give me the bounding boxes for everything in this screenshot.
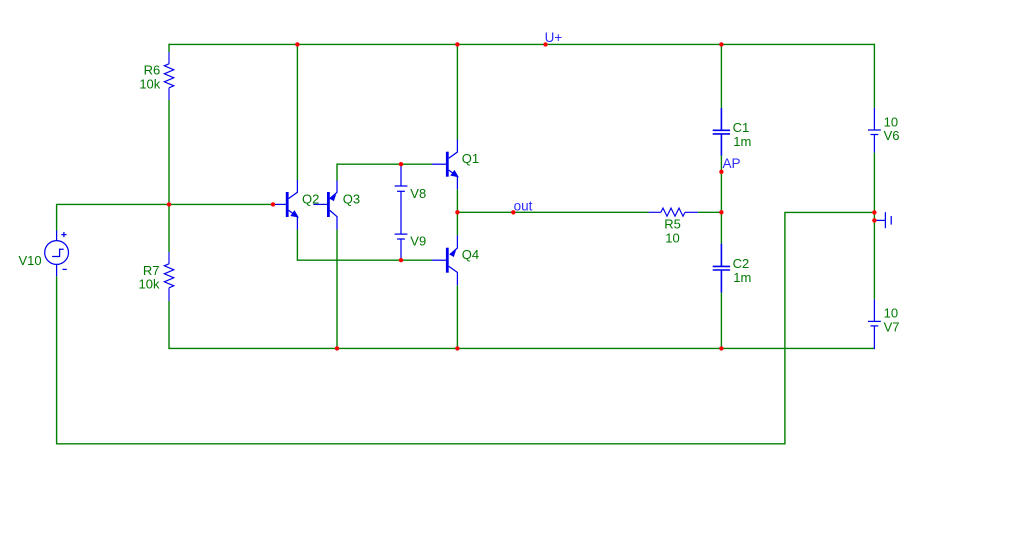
- transistor Q1: [432, 140, 458, 190]
- svg-text:V8: V8: [410, 186, 426, 201]
- battery V8: [395, 165, 408, 234]
- wire Q2 emitter down and right to Q4 base: [297, 230, 432, 261]
- svg-text:out: out: [514, 198, 533, 213]
- wire Q1 emitter to out node: [456, 189, 458, 212]
- svg-text:10: 10: [884, 306, 898, 321]
- wire top rail U+: [169, 43, 874, 45]
- svg-text:10: 10: [665, 231, 679, 246]
- svg-text:Q1: Q1: [462, 151, 479, 166]
- battery V6: [868, 108, 881, 153]
- wire Q3 collector to bottom rail: [336, 230, 338, 350]
- node right rail feedback: [872, 210, 876, 214]
- svg-text:C2: C2: [733, 256, 750, 271]
- wire right rail top: [873, 44, 875, 108]
- wire C1 to AP node: [720, 156, 722, 172]
- svg-text:V9: V9: [410, 234, 426, 249]
- wire left rail top (R6 to top rail): [168, 44, 170, 52]
- transistor Q3: [313, 181, 337, 230]
- battery V9: [395, 234, 408, 260]
- svg-text:Q3: Q3: [343, 191, 360, 206]
- wire bottom rail: [169, 347, 874, 349]
- node right rail ground: [872, 218, 876, 222]
- node V8 top: [399, 162, 403, 166]
- node out: [455, 210, 459, 214]
- svg-text:V6: V6: [884, 128, 900, 143]
- node out label attach: [511, 210, 515, 214]
- wire out node to R5: [457, 211, 648, 213]
- node top rail Q2 collector: [295, 42, 299, 46]
- resistor R6: [164, 52, 174, 100]
- wire Q3 emitter up and right to Q1 base: [337, 164, 432, 180]
- wire input node to Q2 base: [169, 203, 274, 205]
- wire R5 to C junction: [698, 211, 721, 213]
- svg-text:R5: R5: [664, 216, 681, 231]
- wire R5 junction to C2: [720, 212, 722, 243]
- capacitor C1: [713, 108, 730, 156]
- wire AP node to R5 junction: [720, 172, 722, 213]
- svg-text:10k: 10k: [139, 277, 160, 292]
- node input divider: [167, 202, 171, 206]
- svg-text:V7: V7: [884, 320, 900, 335]
- wire out node to Q4 emitter: [456, 212, 458, 235]
- voltage source V10: [45, 231, 69, 277]
- wire right rail middle: [873, 153, 875, 300]
- node top rail Q1 collector: [455, 42, 459, 46]
- node AP: [719, 170, 723, 174]
- wire Q1 collector to top rail: [456, 44, 458, 139]
- wire Q2 collector to top rail: [296, 44, 298, 180]
- svg-text:C1: C1: [733, 120, 750, 135]
- node U+ label attach: [543, 42, 547, 46]
- wire left rail middle (R6 bottom to R7 top): [168, 100, 170, 252]
- battery V7: [868, 299, 881, 349]
- transistor Q4: [432, 235, 457, 285]
- node V9 bottom: [399, 258, 403, 262]
- capacitor C2: [713, 244, 730, 293]
- svg-text:V10: V10: [19, 253, 42, 268]
- svg-text:U+: U+: [545, 30, 563, 45]
- wire Q4 collector to bottom rail: [456, 285, 458, 349]
- wire V10 top to input node: [57, 204, 169, 230]
- resistor R5: [649, 208, 699, 216]
- svg-text:AP: AP: [723, 156, 741, 171]
- node bottom rail C2 branch: [719, 346, 723, 350]
- svg-text:1m: 1m: [733, 134, 751, 149]
- wire V10 bottom feedback loop: [57, 212, 875, 443]
- node bottom rail Q4 collector: [455, 346, 459, 350]
- wire left rail bottom (R7 to bottom rail): [168, 301, 170, 349]
- svg-text:1m: 1m: [733, 270, 751, 285]
- node R5 C1 C2 junction: [719, 210, 723, 214]
- node Q2 base: [271, 202, 275, 206]
- svg-text:Q4: Q4: [462, 247, 479, 262]
- ground: [874, 212, 891, 228]
- transistor Q2: [274, 180, 298, 230]
- node top rail C1 branch: [719, 42, 723, 46]
- svg-text:10k: 10k: [139, 76, 160, 91]
- node bottom rail Q3 collector: [335, 346, 339, 350]
- wire top rail to C1: [720, 44, 722, 108]
- wire C2 to bottom rail: [720, 293, 722, 349]
- resistor R7: [164, 252, 174, 301]
